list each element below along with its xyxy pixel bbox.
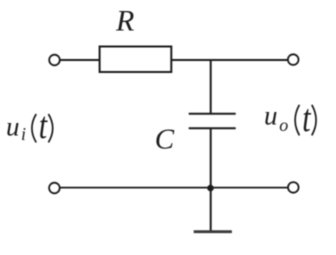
svg-text:i: i xyxy=(21,124,26,144)
svg-text:C: C xyxy=(155,123,175,155)
svg-text:o: o xyxy=(279,115,288,135)
svg-text:t: t xyxy=(302,96,311,140)
svg-text:u: u xyxy=(6,112,20,142)
svg-text:t: t xyxy=(39,105,49,147)
svg-text:R: R xyxy=(115,4,134,37)
svg-text:u: u xyxy=(264,101,278,131)
